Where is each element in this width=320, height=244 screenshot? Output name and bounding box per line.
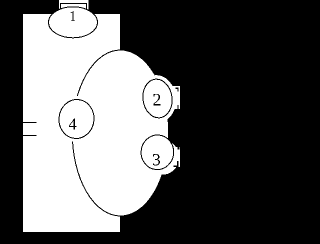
left tick lower [23,135,37,136]
node 3 [140,134,175,171]
digit 1 [70,11,75,21]
node 4 [57,98,96,140]
bracket marks rect 3 [174,147,180,167]
rect behind node 3 (outer white) [172,147,180,167]
node 2 [140,77,174,119]
digit 4 [69,119,77,130]
bracket marks rect 2 [176,88,179,110]
digit 3 [153,154,160,165]
system rectangle [23,14,120,232]
node 3 shadow [145,139,181,176]
digit 2 [153,94,160,106]
big ellipse [72,50,168,216]
node 1 [49,7,98,38]
left tick upper [23,122,37,123]
rect behind node 1 [59,0,89,20]
rect behind node 2 (outer white) [172,86,180,109]
